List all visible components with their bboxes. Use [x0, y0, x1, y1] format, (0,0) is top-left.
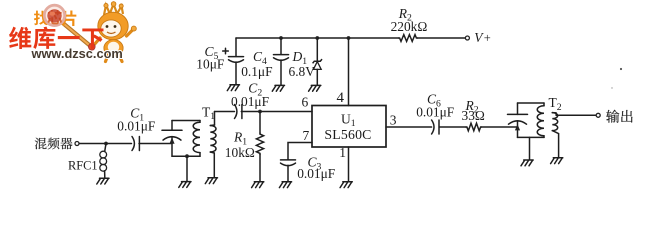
label T2: [549, 95, 562, 113]
resistor R2 (220kΩ): [399, 35, 418, 42]
label C3: [308, 155, 322, 173]
label C6 value 0.01μF: [416, 104, 454, 119]
label D1 value 6.8V: [289, 64, 316, 79]
svg-text:0.01μF: 0.01μF: [231, 94, 269, 109]
ground T1 secondary: [205, 178, 217, 184]
wire T1 primary right lead top: [199, 121, 201, 123]
wire C4 to ground: [280, 60, 282, 85]
op-amp U1 SL560C box: [312, 106, 386, 148]
transformer T2 primary trimmer capacitor: [508, 103, 528, 137]
svg-text:0.01μF: 0.01μF: [117, 119, 155, 134]
svg-text:V: V: [474, 30, 484, 45]
resistor R2 (33Ω): [466, 123, 482, 131]
node rail junction pin4: [347, 36, 351, 40]
wire T1 secondary bottom lead: [210, 152, 214, 177]
transformer T1 primary trimmer capacitor: [162, 121, 182, 157]
capacitor C4: [274, 55, 289, 61]
wire T2 primary right lead bottom: [543, 136, 545, 138]
transformer T2 secondary winding: [552, 113, 557, 131]
wire T1 primary top edge: [172, 120, 200, 122]
capacitor C5 (electrolytic): [229, 57, 244, 63]
wire C5 to ground: [235, 62, 237, 84]
wire V+ supply rail: [236, 37, 399, 39]
node input terminal (mixer): [75, 142, 79, 146]
label R1: [233, 130, 247, 148]
wire T1 primary bottom edge: [172, 155, 200, 157]
transformer T2 primary winding: [537, 106, 544, 136]
svg-text:7: 7: [303, 128, 310, 143]
wire T1 to C2: [215, 111, 235, 113]
label C4: [253, 49, 267, 67]
wire T2 primary top edge: [518, 102, 545, 104]
capacitor C2: [235, 105, 242, 119]
wire T1 secondary coupling top: [210, 124, 214, 127]
capacitor C3: [281, 160, 296, 166]
svg-text:10kΩ: 10kΩ: [225, 145, 255, 160]
node junction input/RFC1: [104, 142, 108, 146]
ground C4: [272, 85, 284, 91]
capacitor C6: [432, 120, 439, 134]
label R2 right: [465, 98, 479, 116]
label D1: [292, 49, 308, 67]
resistor R1: [256, 133, 263, 155]
node rail junction C4: [279, 36, 283, 40]
svg-text:6: 6: [302, 95, 309, 110]
svg-text:6.8V: 6.8V: [289, 64, 316, 79]
capacitor C1: [132, 137, 139, 151]
label R1 value 10kΩ: [225, 145, 255, 160]
svg-text:RFC1: RFC1: [68, 158, 98, 172]
ground C5: [227, 85, 239, 91]
ground U1 pin 1: [340, 182, 352, 188]
wire T2 primary right lead top: [543, 103, 545, 106]
wire R2 to T2: [482, 126, 518, 128]
node T1 primary bottom junction: [185, 154, 189, 158]
ground T1 primary: [179, 182, 191, 188]
label R2 top: [398, 6, 412, 24]
node rail junction D1: [315, 36, 319, 40]
scan speckle: [611, 68, 622, 89]
wire C2 to U1 pin 6: [241, 111, 312, 113]
label pin 4: [337, 90, 345, 106]
label pin 7: [303, 128, 310, 143]
label RFC1: [68, 158, 98, 172]
ground D1: [309, 85, 321, 91]
wire C1 to T1: [139, 143, 172, 145]
label C5: [205, 44, 219, 62]
transformer T1 secondary winding: [210, 126, 216, 153]
wire R1 to ground: [259, 155, 261, 182]
wire R2 to V+ terminal: [418, 37, 466, 39]
label 输出 (output): [606, 110, 633, 123]
svg-text:3: 3: [390, 113, 397, 128]
svg-text:0.1μF: 0.1μF: [241, 64, 272, 79]
label C3 value 0.01μF: [297, 166, 335, 181]
wire junction to RFC1: [105, 144, 106, 152]
wire T2 primary bottom edge: [518, 136, 545, 138]
label R2 value 220kΩ: [391, 19, 428, 34]
label pin 6: [302, 95, 309, 110]
svg-text:4: 4: [337, 90, 345, 106]
label U1: [341, 111, 356, 129]
label R2 value 33Ω: [462, 108, 485, 123]
wire rail to C5: [235, 38, 237, 56]
svg-text:www.dzsc.com: www.dzsc.com: [31, 46, 123, 61]
label U1 part SL560C: [324, 127, 371, 142]
wire T2 primary to ground: [529, 137, 531, 159]
label C2 value 0.01μF: [231, 94, 269, 109]
label V+: [474, 30, 491, 45]
label C5 value 10μF: [196, 56, 224, 71]
label C1: [130, 106, 144, 124]
svg-text:T1: T1: [202, 104, 215, 122]
wire C3 to ground: [287, 165, 289, 181]
label C6: [427, 92, 441, 110]
label C1 value 0.01μF: [117, 119, 155, 134]
wire pin 4 to rail: [348, 38, 350, 106]
node V+ terminal: [465, 36, 469, 40]
ground T2 primary: [521, 160, 533, 166]
wire T2 secondary top to output: [552, 113, 596, 116]
svg-text:33Ω: 33Ω: [462, 108, 485, 123]
ground C3: [279, 182, 291, 188]
svg-text:+: +: [484, 31, 491, 45]
svg-text:220kΩ: 220kΩ: [391, 19, 428, 34]
ground T2 secondary: [551, 158, 563, 164]
svg-text:T2: T2: [549, 95, 562, 113]
polarity + of C5: [223, 48, 229, 54]
svg-text:0.01μF: 0.01μF: [416, 104, 454, 119]
svg-text:1: 1: [339, 145, 346, 160]
ground R1: [252, 182, 264, 188]
wire input terminal to C1: [79, 143, 131, 145]
wire pin 3 to C6: [386, 126, 432, 128]
wire T1 secondary top lead: [214, 112, 216, 126]
node junction C2/R1: [258, 110, 262, 114]
inductor RFC1: [100, 151, 107, 171]
node output terminal: [596, 113, 600, 117]
label T1: [202, 104, 215, 122]
wire T2 secondary bottom lead: [552, 131, 558, 158]
ground RFC1: [97, 178, 109, 184]
wire T1 primary right lead bottom: [199, 153, 201, 157]
wire junction to R1: [259, 112, 261, 134]
wire pin 1 to ground: [348, 147, 350, 181]
wire T1 primary to ground: [186, 156, 188, 181]
wire rail to D1: [316, 38, 318, 61]
diode D1 zener: [313, 59, 322, 69]
svg-text:0.01μF: 0.01μF: [297, 166, 335, 181]
wire pin 7 to C3: [288, 143, 312, 160]
label pin 3: [390, 113, 397, 128]
wire rail to C4: [280, 38, 282, 54]
transformer T1 primary winding: [193, 122, 200, 152]
label C2: [248, 81, 262, 99]
label pin 1: [339, 145, 346, 160]
label C4 value 0.1μF: [241, 64, 272, 79]
wire C6 to R2: [439, 126, 466, 128]
svg-text:SL560C: SL560C: [324, 127, 371, 142]
svg-text:10μF: 10μF: [196, 56, 224, 71]
wire RFC1 to ground: [104, 171, 106, 178]
wire D1 to ground: [316, 69, 318, 85]
label 混频器 (mixer): [35, 138, 73, 150]
watermark logo dzsc (decorative): [9, 2, 136, 62]
